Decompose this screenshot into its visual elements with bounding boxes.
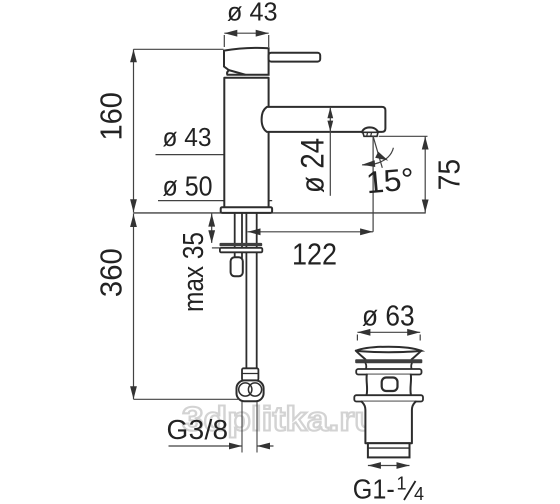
160 arrows <box>130 49 137 62</box>
75 arrows <box>422 137 429 150</box>
max35 arrows <box>208 214 215 227</box>
svg-text:75: 75 <box>432 159 467 191</box>
dim 360 line <box>133 214 135 400</box>
body <box>224 78 268 208</box>
dim 360 extension line bottom <box>134 398 239 400</box>
dim 122 line <box>248 231 374 233</box>
pop-up knob <box>231 257 243 276</box>
dim max35 line <box>211 213 213 243</box>
aerator dome <box>362 127 378 132</box>
drain cap lens <box>356 347 422 353</box>
washer bar <box>220 243 263 246</box>
360 arrows <box>130 214 137 227</box>
angle arc <box>362 148 393 165</box>
dim ø63 line <box>357 331 420 333</box>
svg-text:1: 1 <box>397 474 407 494</box>
lever <box>269 53 321 62</box>
svg-text:4: 4 <box>414 484 424 504</box>
tilt line arrowhead <box>375 152 390 164</box>
svg-text:15°: 15° <box>365 161 416 200</box>
vertical ref line from spout tip <box>372 136 374 232</box>
drain cap skirt <box>356 351 422 360</box>
dim ø50 line <box>158 200 272 202</box>
svg-text:max 35: max 35 <box>178 232 210 312</box>
svg-text:ø 43: ø 43 <box>163 122 212 152</box>
dim G3/8 arrow lines <box>169 445 274 447</box>
dim 160 line <box>133 49 135 212</box>
base flange <box>221 207 272 213</box>
svg-text:ø 63: ø 63 <box>362 300 415 332</box>
handle cap <box>224 48 269 75</box>
G3/8 arrows <box>229 443 242 450</box>
122 arrows <box>248 228 261 235</box>
drain flange 2 <box>356 369 421 375</box>
supply pipe <box>246 213 256 368</box>
drain tail body <box>362 402 416 444</box>
ø63 arrows <box>357 329 370 336</box>
ø50 arrows <box>221 197 234 204</box>
dim ø43 top line <box>224 32 268 34</box>
dim max35 small leader <box>212 247 220 249</box>
hose collar <box>242 368 258 380</box>
cap inner diagonal <box>229 70 245 75</box>
arrowheads <box>130 30 429 469</box>
svg-text:G3/8: G3/8 <box>167 414 229 445</box>
dim ø43 top extension lines <box>224 35 268 47</box>
svg-text:ø 24: ø 24 <box>295 138 331 193</box>
arc arrowhead left <box>362 160 376 168</box>
drain flange 3 <box>354 395 423 401</box>
dim ø43 left line <box>156 154 269 156</box>
drain gasket bar <box>355 359 422 363</box>
drain overflow hole <box>382 378 398 392</box>
spout <box>262 107 386 132</box>
dim 75 extension line top <box>379 135 428 137</box>
G1-1/4 arrows <box>368 462 381 469</box>
ø43 left arrows <box>225 151 238 158</box>
dim ø63 extension ticks <box>357 335 420 341</box>
svg-text:G1-: G1- <box>353 473 395 504</box>
drain upper body <box>367 375 412 396</box>
nut bar <box>220 248 262 252</box>
svg-text:122: 122 <box>292 237 337 272</box>
drain neck curves <box>366 363 412 369</box>
svg-text:ø 50: ø 50 <box>163 170 213 201</box>
aerator outlet <box>363 132 378 136</box>
countertop line <box>134 212 426 214</box>
svg-text:360: 360 <box>93 248 128 297</box>
drain tail thread <box>368 443 410 457</box>
dim G3/8 extension lines <box>242 401 257 452</box>
svg-text:160: 160 <box>93 92 128 141</box>
dim 160 extension line top <box>134 48 224 50</box>
dim G1-1/4 arrow line <box>368 465 410 467</box>
pop-up rod pipes <box>235 213 242 258</box>
svg-text:ø 43: ø 43 <box>227 0 278 27</box>
fraction slash of G1-1/4 <box>404 481 416 500</box>
dim 75 line <box>424 136 426 212</box>
ø43 top arrows <box>224 30 237 37</box>
tilt line <box>373 136 382 168</box>
